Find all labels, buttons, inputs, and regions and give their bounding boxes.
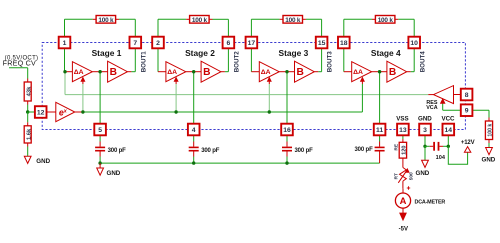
svg-text:100 k: 100 k [192,17,208,24]
svg-text:Stage 3: Stage 3 [279,48,309,58]
svg-text:RT: RT [393,173,399,179]
svg-text:300 pF: 300 pF [295,148,314,154]
svg-text:B: B [203,67,210,78]
svg-text:GND: GND [416,170,430,177]
svg-text:BOUT2: BOUT2 [234,51,241,73]
svg-text:GND: GND [107,170,121,177]
svg-text:5: 5 [98,127,102,134]
svg-text:Stage 4: Stage 4 [371,48,401,58]
svg-text:7: 7 [133,40,137,47]
svg-text:100 k: 100 k [285,17,301,24]
svg-text:9: 9 [465,108,469,115]
svg-text:ΔA: ΔA [261,69,271,76]
svg-text:FREQ CV: FREQ CV [3,59,36,68]
svg-text:4: 4 [192,127,196,134]
svg-text:10: 10 [410,40,418,47]
svg-text:18: 18 [340,40,348,47]
svg-text:100 k: 100 k [378,17,394,24]
svg-text:GND: GND [418,116,432,123]
svg-text:VCA: VCA [426,105,437,111]
svg-text:11: 11 [376,127,383,134]
svg-text:13: 13 [399,127,407,134]
svg-text:43k: 43k [26,86,32,96]
svg-text:300 pF: 300 pF [201,148,220,154]
svg-text:15: 15 [318,40,326,47]
svg-text:Stage 1: Stage 1 [92,48,122,58]
svg-text:Stage 2: Stage 2 [185,48,215,58]
svg-text:B: B [389,67,396,78]
svg-text:12: 12 [37,109,45,116]
svg-text:BOUT3: BOUT3 [327,51,334,73]
svg-text:ΔA: ΔA [74,69,84,76]
svg-text:104: 104 [436,155,446,161]
svg-text:100 k: 100 k [98,17,114,24]
svg-text:-5V: -5V [399,226,408,232]
svg-text:500: 500 [408,172,414,180]
svg-text:B: B [110,67,117,78]
svg-text:B: B [297,67,304,78]
svg-text:A: A [400,195,407,206]
svg-text:8: 8 [465,92,469,99]
svg-text:2: 2 [156,40,160,47]
svg-text:ΔA: ΔA [353,69,363,76]
svg-text:GND: GND [482,156,496,163]
svg-text:RE: RE [393,143,399,150]
svg-text:+12V: +12V [461,140,475,146]
svg-text:16: 16 [283,127,291,134]
svg-text:3: 3 [423,127,427,134]
svg-text:14: 14 [445,127,453,134]
svg-text:120: 120 [401,146,407,155]
svg-text:DCA-METER: DCA-METER [415,199,446,205]
svg-text:6: 6 [227,40,231,47]
svg-text:ΔA: ΔA [167,69,177,76]
svg-text:BOUT4: BOUT4 [419,51,426,73]
svg-text:300 pF: 300 pF [354,147,373,153]
svg-text:GND: GND [36,158,50,165]
svg-text:VSS: VSS [396,116,408,123]
svg-text:VCC: VCC [441,116,455,123]
svg-text:17: 17 [248,40,256,47]
svg-text:1.6k: 1.6k [26,128,32,140]
svg-text:1: 1 [63,40,67,47]
svg-text:BOUT1: BOUT1 [140,51,147,73]
svg-text:300 pF: 300 pF [108,148,127,154]
svg-text:100 k: 100 k [487,124,493,137]
